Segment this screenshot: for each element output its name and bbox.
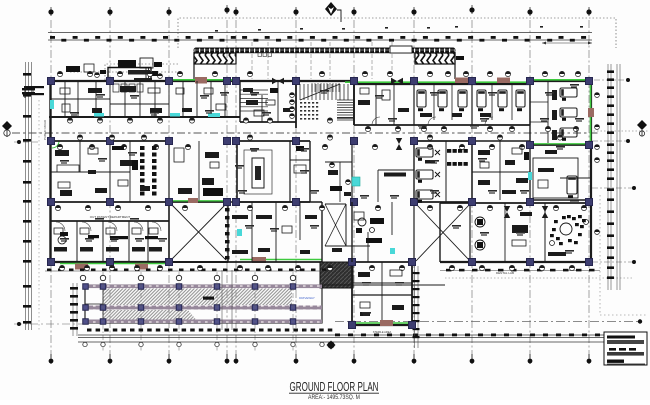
stairs treads upper	[300, 84, 348, 100]
row2 mid-left room furniture	[205, 152, 219, 158]
row2 centre-east room	[377, 170, 379, 202]
ward door arcs	[372, 117, 493, 125]
right wing lounge walls	[529, 145, 531, 200]
porch top-left outline	[108, 68, 151, 82]
ramp east continuation	[322, 284, 445, 286]
green wall east	[590, 82, 592, 145]
top wall centre	[240, 80, 354, 82]
ramp strip band top	[85, 285, 322, 289]
ward desks row1 mid	[358, 100, 370, 105]
ward walls row1	[353, 84, 355, 125]
rail double bars	[22, 88, 35, 90]
consult green bottom	[60, 263, 168, 265]
toilet fixtures cyan	[50, 100, 54, 109]
top dimension dash marks	[50, 36, 586, 42]
row2 mid-left room walls	[198, 141, 200, 202]
main columns row y81	[48, 78, 55, 85]
right wing east wall	[590, 81, 592, 262]
furniture left block row1	[88, 88, 102, 93]
cyan fixtures row2	[352, 177, 360, 186]
site dotted frame right-bottom	[599, 195, 601, 315]
canopy hatch left	[194, 53, 236, 64]
wheelchair symbol	[58, 236, 66, 244]
small X room	[325, 203, 346, 205]
left tick stack	[72, 283, 74, 336]
strip grid stub lines	[102, 272, 104, 352]
legend bar 4	[607, 360, 624, 363]
brown wall patch 3	[497, 78, 510, 84]
consult block bottom wall	[51, 261, 169, 263]
brown wall patch 1	[195, 77, 207, 84]
dim line under block	[440, 270, 600, 272]
procedure room furniture	[358, 218, 366, 226]
right stub line y188	[592, 187, 634, 189]
furniture bottom-right block	[475, 217, 485, 227]
green wall top 3	[530, 79, 589, 81]
extra columns	[527, 142, 534, 149]
right wing lounge inner room	[533, 158, 578, 198]
bottom sparse dashes	[335, 334, 613, 337]
furniture row2 right rooms	[478, 150, 490, 155]
horizontal dotted y278 right	[445, 277, 634, 279]
vertical bowtie door 1	[504, 206, 510, 218]
outer wall left side	[49, 81, 51, 262]
OT side equipment	[296, 146, 304, 151]
gallery tick boxes	[258, 53, 261, 57]
consult door arcs	[56, 222, 161, 231]
svg-text:AREA:- 1495.73SQ. M: AREA:- 1495.73SQ. M	[308, 395, 360, 400]
left dimension rail	[25, 62, 27, 330]
grid vertical lines	[51, 20, 589, 360]
ward beds row1 a	[417, 90, 426, 107]
outer wall top-left	[49, 80, 240, 82]
bottom-centre brown patch	[380, 320, 393, 326]
ramp left room	[102, 285, 104, 323]
door markers mid	[57, 144, 62, 149]
ward beds row1 b	[477, 90, 486, 107]
brown wall patch east	[588, 108, 594, 117]
main columns row y141	[48, 138, 55, 145]
right stub line y80	[594, 79, 628, 81]
north arrow symbol	[325, 2, 341, 22]
bottom long dimension lines	[78, 334, 620, 336]
right stub line y262	[592, 261, 634, 263]
under-strip dense dash row	[87, 329, 332, 332]
centre rooms green bottom	[240, 259, 322, 261]
right dotted line y131	[590, 130, 648, 132]
centre rooms brown patch	[252, 257, 266, 263]
dark hatched service core	[320, 262, 353, 288]
vertical bowtie door 2	[542, 206, 548, 218]
svg-text:DENTAL LAB: DENTAL LAB	[496, 271, 514, 275]
bottom-right partitions	[469, 203, 471, 262]
stairs treads lower	[337, 100, 353, 120]
furniture bottom-centre block	[358, 272, 370, 277]
left block bottom wall	[49, 116, 240, 118]
door markers consult top	[59, 265, 64, 270]
small scattered label dashes	[60, 84, 584, 316]
X hall green top	[170, 200, 227, 202]
legend bar 1	[607, 336, 635, 339]
entrance steps hatch	[312, 83, 339, 92]
canopy hatch right	[415, 53, 455, 64]
furniture centre offices	[246, 100, 258, 105]
legend bar 2	[607, 340, 644, 344]
porch furniture cluster	[118, 60, 136, 67]
door markers row2 top	[77, 135, 82, 140]
door markers right wall	[595, 93, 600, 98]
main columns row y262	[48, 259, 55, 266]
svg-text:PUBLIC ROAD: PUBLIC ROAD	[43, 119, 47, 140]
bottom-right X room cross	[416, 204, 470, 261]
stairs dotted flight	[300, 102, 318, 120]
horizontal centerline y322 right	[335, 321, 640, 323]
row2 ward walls	[414, 140, 472, 142]
ramp strip band bottom	[85, 320, 322, 324]
stair hall walls	[295, 81, 297, 128]
right stub line y141	[592, 140, 628, 142]
left stub line y324	[14, 323, 85, 325]
big X hall walls	[169, 201, 228, 203]
right dimension rails	[607, 64, 609, 290]
top wall wards	[354, 83, 530, 85]
toilet stalls	[113, 84, 119, 92]
waiting chairs rows	[140, 146, 468, 196]
ramp black bar	[203, 297, 214, 300]
site boundary dotted frame	[105, 64, 178, 80]
svg-text:GROUND FLOOR PLAN: GROUND FLOOR PLAN	[290, 379, 379, 394]
ramp strip outline	[85, 285, 322, 323]
strip columns	[83, 284, 89, 290]
right wing floor walls	[530, 144, 591, 146]
strip top circled numbers	[80, 275, 85, 280]
consult block top wall	[51, 220, 169, 222]
row2 centre-west rooms	[325, 161, 352, 163]
compound wall dashed band	[194, 48, 455, 53]
ward beds row2	[416, 148, 433, 157]
brown wall patch 2	[455, 78, 469, 84]
door markers top band	[57, 71, 62, 76]
right wing beds	[560, 88, 577, 97]
bottom circled letters	[83, 342, 87, 346]
centerline diamond right	[637, 120, 647, 130]
right rail tick dashes	[607, 70, 614, 279]
legend dashes	[609, 348, 616, 351]
driveway dash verticals under canopy	[251, 42, 253, 79]
consult partitions	[76, 221, 78, 262]
X hall east wall tick column	[225, 208, 230, 259]
centre rooms cyan fixture	[237, 229, 242, 236]
ramp strip band mid	[85, 306, 322, 310]
main columns row y202	[48, 199, 55, 206]
top wall right wing	[530, 80, 591, 82]
bottom centre diamond marker	[327, 341, 336, 350]
meeting table cluster	[560, 223, 572, 235]
svg-text:STERILE AREA: STERILE AREA	[373, 330, 392, 334]
bowtie door 1	[272, 78, 284, 84]
centre offices walls	[239, 81, 241, 122]
svg-text:DRIVEWAY: DRIVEWAY	[299, 296, 315, 300]
bowtie door corridor	[396, 138, 402, 150]
road gate structure	[24, 86, 44, 88]
row2 right rooms walls	[472, 140, 530, 142]
green wall top 2	[345, 81, 530, 83]
centre rooms row3 walls	[228, 201, 322, 203]
row2 OT block walls	[237, 140, 310, 142]
grid bottom dots	[49, 354, 592, 364]
stairs diagonal	[300, 84, 340, 100]
bottom-centre green	[356, 322, 410, 324]
svg-text:OUT PATIENT DEPARTMENT: OUT PATIENT DEPARTMENT	[90, 215, 131, 219]
bottom-centre block walls	[352, 261, 412, 263]
stair hall side circles	[290, 93, 295, 98]
furniture row2 left	[55, 150, 69, 156]
grid top circles	[48, 5, 591, 16]
legend box	[604, 332, 647, 365]
ramp hatch lower	[103, 310, 196, 320]
row2 left block walls	[51, 140, 169, 142]
consult brown patches	[75, 264, 88, 270]
furniture centre row3 lab benches	[232, 215, 248, 219]
procedure room partitions	[367, 232, 369, 262]
white box on band	[390, 46, 412, 53]
left dotted guide	[38, 100, 40, 332]
top dimension lines	[48, 32, 592, 34]
green door arc	[52, 141, 59, 148]
horizontal centerline y133	[12, 132, 600, 134]
door markers row1 bottom wards	[365, 126, 370, 131]
centerline diamond left	[2, 121, 12, 131]
short dim line top-right	[542, 42, 592, 44]
green wall top 1	[173, 79, 240, 81]
big X hall cross	[171, 204, 226, 260]
OT table	[244, 150, 272, 194]
porch furniture left	[66, 66, 80, 72]
canopy right bar	[456, 56, 464, 60]
door markers row2	[55, 205, 60, 210]
left block partitions row1	[64, 81, 66, 117]
strip top dash row	[47, 269, 327, 272]
strip pair verticals	[221, 270, 223, 330]
furniture consult rooms	[54, 247, 67, 252]
title underline	[289, 392, 379, 394]
ramp hatch upper	[103, 289, 292, 306]
legend bar 3	[607, 352, 644, 356]
bowtie door 2	[391, 78, 403, 84]
bottom-right block walls	[440, 202, 590, 204]
left block inner shelves row1	[51, 98, 110, 100]
right wing green bottom	[532, 143, 589, 145]
left stub y142	[14, 141, 40, 143]
door markers row1 bottom left	[67, 118, 72, 123]
vertical dimension pair x414	[414, 266, 416, 348]
escalator lines	[240, 90, 268, 111]
